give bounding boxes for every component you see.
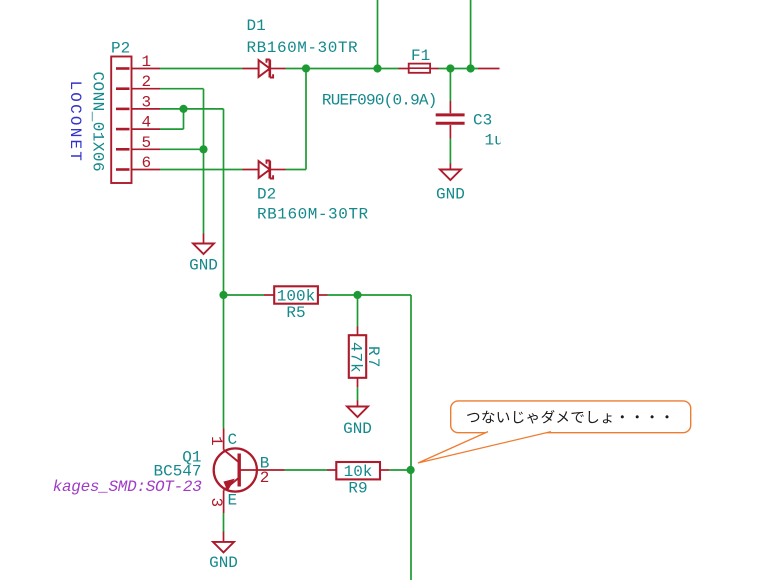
P2 pin 4 line [132,128,161,130]
svg-text:D1: D1 [247,17,266,35]
wire to R5 [224,294,265,296]
wire R5 to corner [328,294,412,296]
svg-text:GND: GND [436,186,465,204]
wire C3 to GND [449,139,451,165]
svg-text:1: 1 [142,53,152,71]
ground GND (C3) [440,164,461,181]
svg-text:5: 5 [142,134,152,152]
svg-text:D2: D2 [257,186,276,204]
svg-text:6: 6 [142,154,152,172]
pin stub right (offsheet component) [478,68,500,70]
junction R5/R7 [353,291,361,299]
svg-text:3: 3 [207,498,225,508]
P2 pin 6 pad [116,168,130,171]
junction D1 out [302,64,310,72]
svg-text:F1: F1 [411,47,430,65]
P2 pin 3 line [132,108,161,110]
svg-text:100k: 100k [277,287,315,305]
transistor Q1 [214,429,285,514]
svg-text:R7: R7 [364,346,382,370]
wire vertical top-2 [470,0,472,69]
wire pin3 [160,108,224,110]
svg-text:RB160M-30TR: RB160M-30TR [247,39,359,57]
svg-text:10k: 10k [344,463,373,481]
svg-text:R5: R5 [286,304,305,322]
wire pin1 to D1 [160,68,243,70]
svg-text:GND: GND [189,257,218,275]
wire pin4 up to pin3 [183,109,185,129]
svg-text:RUEF090(0.9A): RUEF090(0.9A) [322,92,437,110]
junction pin3/pin4 [179,105,187,113]
svg-text:RB160M-30TR: RB160M-30TR [257,206,369,224]
annotation callout bubble [418,401,691,463]
svg-text:GND: GND [343,420,372,438]
P2 pin 2 line [132,88,161,90]
svg-text:4: 4 [142,114,152,132]
resistor R7 [349,327,366,388]
wire R7 to GND [357,387,359,400]
P2 pin 6 line [132,169,161,171]
junction top-2 [467,64,475,72]
P2 pin 5 pad [116,148,130,151]
wire R9 to node [389,469,411,471]
wire pin5 [160,148,204,150]
junction top-1 [373,64,381,72]
ground GND (R7) [347,401,368,418]
resistor R9 [336,462,380,479]
junction pin2/pin5 [199,145,207,153]
connector P2 body [111,57,131,184]
svg-text:2: 2 [260,469,270,487]
wire D1 to F1 [286,68,400,70]
svg-text:kages_SMD:SOT-23: kages_SMD:SOT-23 [53,478,203,496]
wire Q1.E to GND [223,513,225,532]
svg-text:R9: R9 [348,480,367,498]
P2 pin 3 pad [116,108,130,111]
wire vertical top-1 [377,0,379,69]
P2 pin 4 pad [116,128,130,131]
svg-text:3: 3 [142,93,152,111]
wire D2 right [286,169,307,171]
wire Q1.B to R9 [285,469,328,471]
svg-text:1: 1 [207,436,225,446]
diode D2 [243,161,286,179]
svg-text:47k: 47k [347,342,365,374]
diode D1 [243,60,286,78]
annotation text [467,410,668,423]
junction R5 left [219,291,227,299]
P2 pin 1 pad [116,67,130,70]
fuse F1 [399,64,439,73]
junction R9 node [407,466,415,474]
wire to R7 [357,295,359,327]
P2 pin 1 line [132,68,161,70]
wire pin3 down to Q1 [223,109,225,429]
wire pin4 [160,128,184,130]
svg-text:LOCONET: LOCONET [66,81,84,164]
wire D1-D2 vertical [305,69,307,170]
capacitor C3 [436,101,465,139]
svg-text:GND: GND [209,554,238,572]
svg-text:P2: P2 [111,40,130,58]
ground GND (pin2 net) [193,234,214,255]
svg-text:C: C [228,431,238,449]
svg-text:2: 2 [142,73,152,91]
ground GND (Q1.E) [213,532,234,553]
wire F1 right [439,68,479,70]
wire pin2 [160,88,204,90]
P2 pin 5 line [132,148,161,150]
svg-text:C3: C3 [473,112,492,130]
wire pin2 down to GND [203,89,205,234]
junction C3 [446,64,454,72]
resistor R5 [274,286,318,303]
P2 pin 2 pad [116,87,130,90]
wire to C3 [449,69,451,102]
wire pin6 to D2 [160,169,243,171]
svg-text:E: E [228,492,238,510]
svg-text:CONN_01X06: CONN_01X06 [89,72,107,173]
wire right vertical [410,295,412,580]
